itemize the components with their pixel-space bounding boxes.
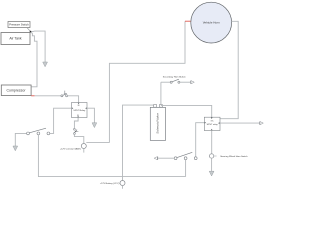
svg-text:Vehicle Horn: Vehicle Horn	[203, 21, 220, 25]
svg-text:86: 86	[78, 105, 80, 107]
relay U2 (SPST relay)	[204, 117, 220, 130]
svg-text:Secondary Horn Button: Secondary Horn Button	[163, 76, 187, 79]
wire S3 middle to bus	[185, 160, 187, 177]
wire relay U2 bottom to steering terminal	[211, 131, 213, 154]
wire NC contact to supply terminal	[74, 135, 83, 144]
ground arrow below T2	[209, 171, 214, 176]
vehicle horn H1	[191, 2, 232, 43]
pressure contact SW1	[61, 91, 68, 97]
wire compressor to pressure contact	[35, 95, 61, 97]
steering wheel switch S3	[174, 152, 197, 159]
wire valve branch to relay U2 coil	[161, 105, 212, 117]
battery stub	[122, 186, 124, 189]
output arrow right	[260, 122, 264, 125]
wire relay U1 bottom to NC contact	[74, 118, 78, 129]
wire valve to horn button	[160, 82, 162, 104]
svg-text:Steering Wheel Horn Switch: Steering Wheel Horn Switch	[220, 155, 248, 158]
supply terminal T1	[81, 144, 86, 149]
ground arrow left of S1	[13, 146, 18, 151]
svg-text:Pressure Switch: Pressure Switch	[9, 23, 29, 27]
bottom bus wire	[38, 176, 186, 178]
steering terminal T2	[209, 154, 213, 158]
toggle switch S1 (dash on/off)	[27, 128, 50, 135]
ground arrow right of U1	[92, 123, 97, 128]
wire S1 middle to bottom bus	[37, 135, 39, 177]
svg-text:SPST Relay: SPST Relay	[73, 110, 86, 112]
wire compressor feed (red)	[31, 95, 34, 97]
wire dash switch to relay U1 left	[50, 108, 72, 133]
wire tank to compressor	[31, 32, 37, 87]
exhaust down arrow	[43, 62, 48, 67]
svg-text:+12V Constant (BAT): +12V Constant (BAT)	[60, 148, 81, 151]
secondary horn button S2	[161, 79, 194, 84]
svg-text:Compressor: Compressor	[6, 89, 26, 93]
NC contact SW2	[74, 128, 79, 134]
wire contact to relay coil	[68, 96, 79, 103]
wire relay U1 right to ground	[87, 108, 94, 123]
svg-text:+12V Battery (VCC): +12V Battery (VCC)	[100, 182, 120, 185]
relay U1 (SPST Relay)	[72, 103, 88, 118]
wire S3 left terminal arrow	[158, 157, 174, 159]
wire relay U2 output arrow	[220, 122, 259, 124]
air tank box	[1, 33, 30, 45]
wire vertical horn feed	[109, 21, 185, 142]
node junction dot	[30, 31, 32, 33]
wire battery riser	[123, 105, 155, 180]
wire T2 to ground	[211, 158, 213, 171]
pressure switch PS1 box	[8, 22, 30, 28]
svg-text:Air Tank: Air Tank	[9, 37, 21, 41]
wire horn left (red)	[185, 20, 191, 22]
wire horn right down to relay U2	[220, 21, 238, 118]
wire horn feed long run	[86, 142, 109, 144]
terminal T1 stub	[83, 149, 85, 153]
svg-text:Solenoid Valve: Solenoid Valve	[155, 113, 159, 134]
svg-text:SPST relay: SPST relay	[207, 123, 219, 126]
compressor box	[1, 85, 31, 96]
solenoid valve V1	[150, 105, 165, 141]
wire air line to exhaust arrow	[31, 31, 45, 62]
wire pressure switch leader	[27, 28, 30, 32]
wire S1 common to ground	[15, 133, 26, 146]
wire relay U2 left to steering switch	[196, 123, 205, 157]
battery terminal B1	[120, 181, 125, 186]
svg-text:87a: 87a	[211, 120, 214, 122]
